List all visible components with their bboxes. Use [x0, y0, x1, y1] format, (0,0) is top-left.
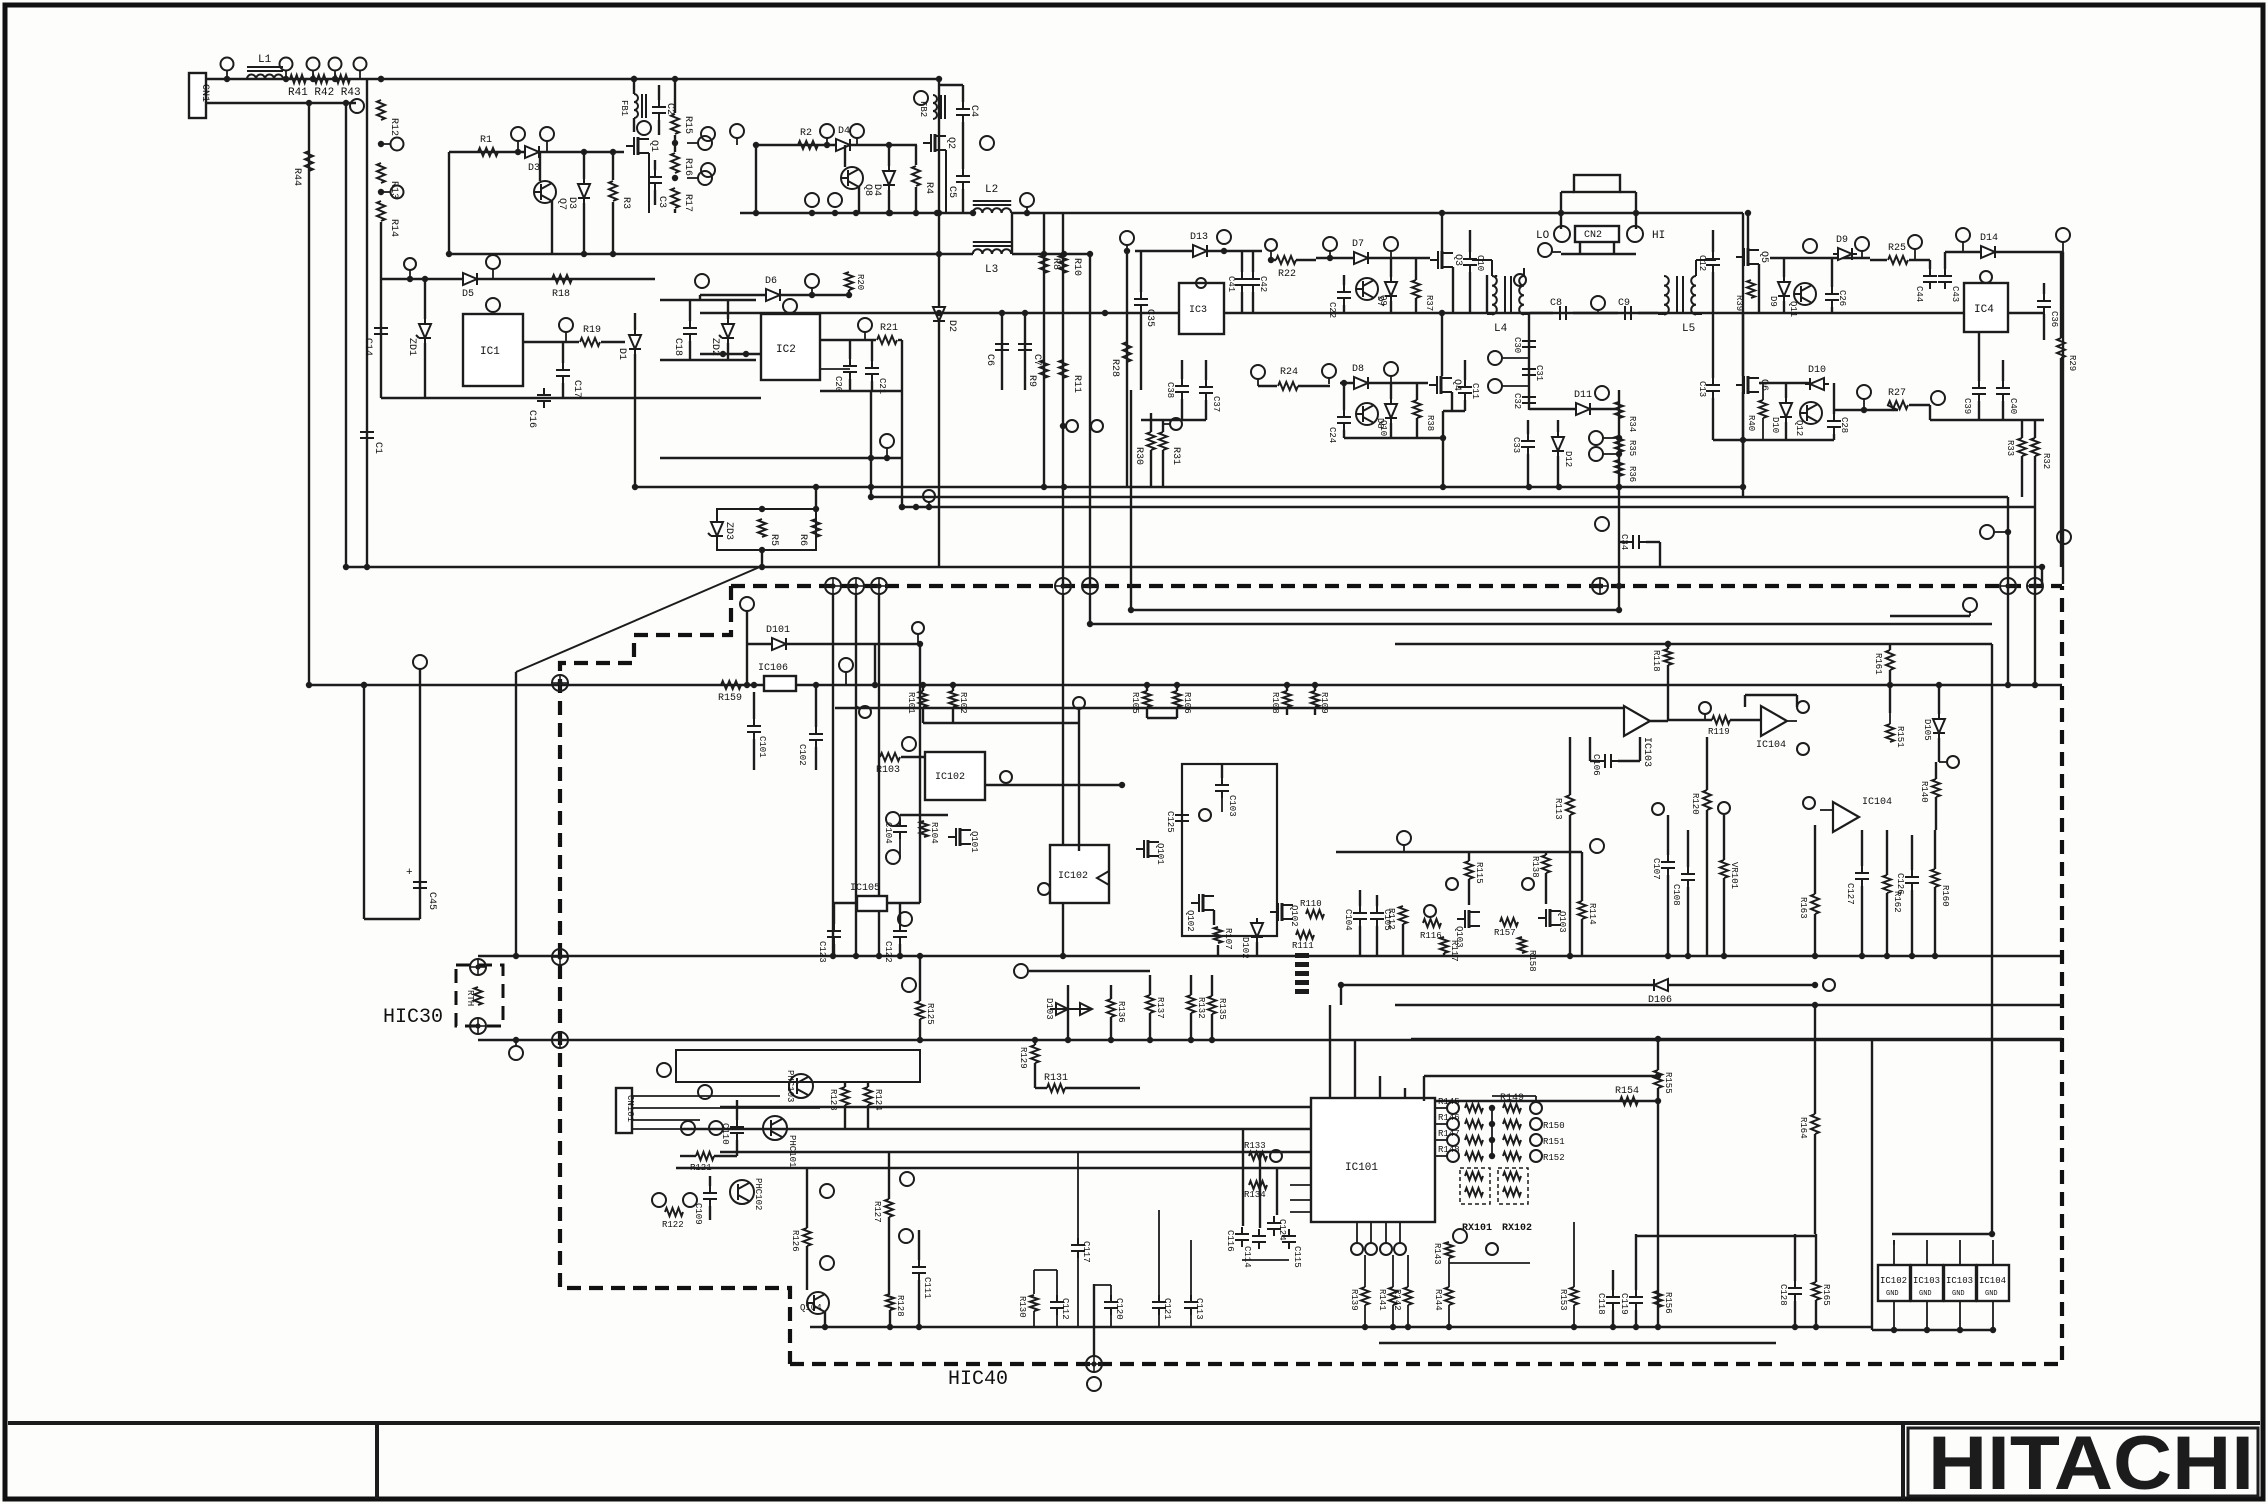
- wire C39 b: [1978, 401, 1980, 420]
- wire R140 b: [1935, 797, 1937, 830]
- wire R118 t: [1667, 644, 1669, 649]
- wire x1131 v: [1130, 390, 1132, 610]
- svg-text:R22: R22: [1278, 269, 1296, 280]
- wire bus y254 right: [1012, 253, 1090, 255]
- svg-text:R14: R14: [388, 219, 399, 237]
- wire R29 t: [2060, 252, 2062, 338]
- junction dot: [1665, 953, 1671, 959]
- diode D2: [933, 302, 945, 326]
- diode D9v: [1778, 277, 1790, 301]
- wire x420 v: [419, 668, 421, 919]
- terminal: [1447, 1118, 1459, 1130]
- junction dot: [1812, 1002, 1818, 1008]
- terminal: [1956, 228, 1970, 242]
- svg-text:R130: R130: [1017, 1296, 1027, 1318]
- wire D3v top: [583, 152, 585, 179]
- svg-text:C30: C30: [1512, 337, 1522, 353]
- wire C24 b: [1343, 430, 1345, 438]
- wire x1094 v: [1093, 1284, 1095, 1356]
- capacitor C28: [1827, 414, 1841, 434]
- wire R138 t: [1545, 852, 1547, 855]
- wire gnd top: [1926, 1240, 1928, 1265]
- wire R29 b: [2060, 358, 2062, 567]
- junction: [759, 564, 765, 570]
- wire R38 b: [1416, 418, 1418, 438]
- terminal: [1424, 905, 1436, 917]
- junction: [1489, 1121, 1495, 1127]
- wire C113 b: [1190, 1315, 1192, 1327]
- wire R102 t: [952, 685, 954, 691]
- wire y1076 row: [1424, 1075, 1658, 1077]
- pin header bar: [1295, 962, 1309, 967]
- wire R135 b: [1211, 1014, 1213, 1040]
- transistor Q104: [807, 1292, 829, 1314]
- wire clk row: [985, 784, 1122, 786]
- svg-text:RX102: RX102: [1502, 1223, 1532, 1234]
- terminal: [404, 258, 416, 270]
- terminal: [1251, 365, 1265, 379]
- wire R21 r: [898, 339, 902, 341]
- wire R24 l: [1258, 385, 1277, 387]
- resistor R133: [1249, 1152, 1267, 1160]
- GND box IC103: [1944, 1265, 1976, 1301]
- svg-text:Q3: Q3: [1452, 254, 1463, 266]
- junction: [1489, 1137, 1495, 1143]
- wire R155 t: [1657, 1039, 1659, 1070]
- wire D13 row: [1135, 250, 1262, 252]
- svg-text:R136: R136: [1116, 1001, 1126, 1023]
- wire shunt top l: [1561, 191, 1574, 193]
- svg-text:R139: R139: [1349, 1289, 1359, 1311]
- svg-text:R149: R149: [1500, 1093, 1524, 1104]
- wire C122 b: [899, 944, 901, 956]
- plus terminal: [871, 578, 887, 594]
- wire Q1 gate row y152: [449, 151, 624, 153]
- wire C113 t: [1190, 1240, 1192, 1295]
- resistor R146: [1465, 1120, 1483, 1128]
- terminal: [898, 912, 912, 926]
- wire C5 v: [962, 122, 964, 169]
- svg-text:R111: R111: [1292, 941, 1314, 951]
- wire x875 v: [874, 644, 876, 685]
- junction: [886, 142, 892, 148]
- wire res bottom: [1407, 1305, 1409, 1327]
- terminal: [730, 124, 744, 138]
- wire D7v b: [1390, 301, 1392, 313]
- junction dot: [1102, 310, 1108, 316]
- wire R163 b: [1814, 914, 1816, 956]
- wire x1341 v: [1340, 985, 1342, 1005]
- svg-text:R15: R15: [682, 116, 693, 134]
- wire y1039 row: [1411, 1038, 2062, 1040]
- resistor R157: [1500, 918, 1518, 926]
- wire R162 b: [1886, 893, 1888, 956]
- wire C110 t: [736, 1100, 738, 1120]
- junction dot: [513, 953, 519, 959]
- wire R129 b: [1034, 1063, 1036, 1088]
- svg-text:R28: R28: [1109, 359, 1120, 377]
- svg-text:R1: R1: [480, 135, 492, 146]
- svg-text:R154: R154: [1615, 1086, 1639, 1097]
- terminal LO: [1554, 226, 1570, 242]
- junction: [343, 100, 349, 106]
- svg-text:D4: D4: [838, 126, 850, 137]
- svg-text:C8: C8: [1550, 298, 1562, 309]
- wire D4v top: [888, 145, 890, 166]
- resistor R6: [812, 519, 820, 537]
- svg-text:R160: R160: [1940, 885, 1950, 907]
- svg-text:C42: C42: [1258, 276, 1268, 292]
- wire x1619 v: [1618, 390, 1620, 610]
- wire C44 v: [1929, 260, 1931, 269]
- transistor Q11: [1794, 283, 1816, 305]
- wire R126 t: [806, 1168, 808, 1228]
- wire x871 v: [870, 391, 872, 497]
- wire R114 b: [1581, 919, 1583, 956]
- wire R17 line: [674, 209, 676, 213]
- diode D8v: [1385, 399, 1397, 423]
- svg-text:C44: C44: [1914, 286, 1924, 302]
- capacitor C112: [1050, 1295, 1064, 1315]
- svg-text:C111: C111: [922, 1277, 932, 1299]
- svg-text:RTH: RTH: [465, 990, 475, 1006]
- capacitor C122: [893, 924, 907, 944]
- capacitor C107: [1661, 855, 1675, 875]
- wire R126 b: [806, 1246, 808, 1290]
- wire C22 t: [1343, 275, 1345, 285]
- wire x1243 v: [1242, 1129, 1244, 1226]
- svg-text:HIC30: HIC30: [383, 1006, 443, 1029]
- svg-text:R163: R163: [1798, 897, 1808, 919]
- wire R102 b: [952, 707, 954, 723]
- wire vertical x1743: [1742, 213, 1744, 487]
- plus terminal: [552, 949, 568, 965]
- svg-text:IC102: IC102: [1058, 871, 1088, 882]
- wire x1424 v: [1423, 1076, 1425, 1101]
- wire stub: [826, 138, 828, 145]
- plus terminal: [552, 675, 568, 691]
- wire C102 t: [815, 685, 817, 727]
- diode D103 pair: [1050, 1003, 1092, 1015]
- terminal: [1591, 296, 1605, 310]
- svg-text:D4: D4: [871, 184, 882, 196]
- wire R164 t: [1814, 1005, 1816, 1114]
- wire FB1 Q1: [633, 118, 635, 132]
- wire stub: [1994, 531, 2008, 533]
- junction dot: [899, 504, 905, 510]
- wire y1152 row: [720, 1151, 1311, 1153]
- wire C24 t: [1343, 383, 1345, 410]
- wire D12 b: [1557, 456, 1559, 487]
- wire x920 v: [919, 644, 921, 903]
- wire C126 t: [1911, 835, 1913, 870]
- junction: [886, 210, 892, 216]
- wire Q104 b: [824, 1312, 826, 1327]
- wire x756 down: [755, 145, 757, 213]
- wire top bus: [206, 78, 939, 80]
- GND box IC102: [1878, 1265, 1910, 1301]
- terminal: [1530, 1150, 1542, 1162]
- wire y279 down: [380, 279, 382, 398]
- wire R120 b: [1706, 810, 1708, 956]
- wire IC104 fb2: [1745, 694, 1797, 696]
- wire y420 row: [1930, 419, 2044, 421]
- wire R135 t: [1211, 975, 1213, 996]
- resistor R20: [845, 272, 853, 290]
- svg-text:C4: C4: [968, 105, 979, 117]
- wire D9v b: [1783, 301, 1785, 313]
- capacitor C3: [648, 170, 662, 190]
- junction dot: [868, 484, 874, 490]
- junction dot: [887, 210, 893, 216]
- wire stub: [1597, 310, 1599, 313]
- wire C33 b: [1527, 454, 1529, 487]
- svg-text:C10: C10: [1475, 255, 1485, 271]
- resistor R122: [665, 1208, 683, 1216]
- terminal HI: [1627, 226, 1643, 242]
- wire C10 b: [1469, 272, 1471, 313]
- capacitor C117: [1071, 1238, 1085, 1258]
- wire y383 row2: [1759, 382, 1810, 384]
- wire R40 t: [1762, 383, 1764, 400]
- wire Q7 base: [539, 152, 541, 181]
- wire R119 r: [1730, 719, 1761, 721]
- wire R130 t: [1033, 1270, 1035, 1294]
- terminal: [1217, 230, 1231, 244]
- capacitor C8: [1553, 306, 1573, 320]
- svg-text:R109: R109: [1319, 692, 1329, 714]
- svg-text:LO: LO: [1536, 230, 1550, 242]
- terminal: [1823, 979, 1835, 991]
- svg-text:Q4: Q4: [1451, 379, 1462, 391]
- resistor R16: [671, 153, 679, 173]
- capacitor C31: [1522, 362, 1536, 382]
- junction: [913, 210, 919, 216]
- svg-text:R108: R108: [1270, 692, 1280, 714]
- wire gnd top: [1893, 1240, 1895, 1265]
- wire Q2 gate row y145: [756, 144, 917, 146]
- wire bus y497: [871, 496, 2008, 498]
- resistor R125: [916, 1001, 924, 1019]
- plus terminal RTH top: [470, 959, 486, 975]
- wire R119 l: [1668, 719, 1712, 721]
- resistor R41: [290, 75, 306, 83]
- svg-text:C31: C31: [1534, 365, 1544, 381]
- terminal: [698, 1085, 712, 1099]
- svg-text:D101: D101: [766, 625, 790, 636]
- diode D3v: [578, 179, 590, 203]
- resistor ladder2: [1503, 1136, 1521, 1144]
- capacitor C13: [1706, 378, 1720, 398]
- svg-text:D5: D5: [462, 289, 474, 300]
- wire d102 v: [1256, 942, 1258, 956]
- junction dot: [306, 682, 312, 688]
- capacitor C39: [1972, 381, 1986, 401]
- resistor R1: [478, 148, 498, 156]
- plus terminal RTH bottom: [470, 1018, 486, 1034]
- junction: [913, 504, 919, 510]
- resistor R153: [1570, 1287, 1578, 1305]
- svg-text:C127: C127: [1845, 883, 1855, 905]
- wire x1090b v: [1089, 594, 1091, 624]
- wire R160 t: [1934, 830, 1936, 869]
- resistor R4: [912, 166, 920, 186]
- wire R101 t: [922, 685, 924, 691]
- svg-text:C123: C123: [817, 941, 827, 963]
- wire shunt top r: [1620, 191, 1636, 193]
- wire ladder bus: [1491, 1108, 1493, 1156]
- wire D14 row: [1945, 251, 2063, 253]
- wire C107 t: [1667, 815, 1669, 855]
- resistor R113: [1566, 795, 1574, 815]
- capacitor C121: [1152, 1295, 1166, 1315]
- diode D9: [1833, 248, 1857, 260]
- resistor RX net: [1465, 1188, 1483, 1196]
- wire R108 t: [1286, 685, 1288, 691]
- junction: [1616, 435, 1622, 441]
- terminal: [683, 1193, 697, 1207]
- resistor R24: [1278, 382, 1298, 390]
- resistor R19: [580, 338, 600, 346]
- wire y1263: [1449, 1262, 1530, 1264]
- hitachi cell divider: [1901, 1423, 1905, 1499]
- terminal: [1384, 237, 1398, 251]
- svg-text:R32: R32: [2041, 453, 2051, 469]
- junction dot: [917, 953, 923, 959]
- wire R40 b: [1762, 418, 1764, 440]
- wire C106 r: [1618, 760, 1640, 762]
- resistor ladder2: [1503, 1152, 1521, 1160]
- plus terminal: [1086, 1356, 1102, 1372]
- junction dot: [2039, 564, 2045, 570]
- wire R14 to D5 row: [380, 222, 382, 279]
- wire C127 b: [1861, 886, 1863, 956]
- terminal: [1365, 1243, 1377, 1255]
- capacitor C119: [1629, 1290, 1643, 1310]
- wire res bottom: [1392, 1305, 1394, 1327]
- wire C117 t: [1077, 1152, 1079, 1238]
- wire fb loop v: [1639, 737, 1641, 761]
- capacitor C43: [1938, 269, 1952, 289]
- wire IC2 pin mid: [820, 368, 850, 370]
- wire stub r22: [1270, 251, 1272, 260]
- resistor R2: [798, 141, 818, 149]
- svg-text:R101: R101: [906, 692, 916, 714]
- svg-text:Q102: Q102: [1185, 910, 1195, 932]
- svg-text:R110: R110: [1300, 899, 1322, 909]
- junction dot: [897, 953, 903, 959]
- wire C102 b: [815, 747, 817, 770]
- wire x1529 v: [1528, 313, 1530, 410]
- junction: [720, 351, 726, 357]
- resistor R126: [803, 1228, 811, 1246]
- resistor R151b: [1886, 724, 1894, 742]
- wire Q4 v: [1441, 313, 1443, 376]
- IC IC102b: [1050, 845, 1109, 903]
- capacitor C10: [1463, 252, 1477, 272]
- wire stub: [1962, 242, 1964, 252]
- inductor FB1: [634, 94, 646, 118]
- svg-text:R20: R20: [855, 274, 865, 290]
- wire R105 t: [1146, 685, 1148, 691]
- resistor R30: [1147, 432, 1155, 450]
- wire R20 b: [848, 290, 850, 295]
- wire D101 row: [747, 643, 920, 645]
- wire C110 b: [736, 1140, 738, 1156]
- wire R32 b: [2034, 456, 2036, 507]
- wire R37 t: [1415, 258, 1417, 280]
- wire stub d10: [1863, 399, 1865, 410]
- wire bus y610: [1131, 609, 1619, 611]
- capacitor C128: [1788, 1281, 1802, 1301]
- junction dot: [970, 210, 976, 216]
- PHC103 transistor: [789, 1074, 813, 1098]
- wire stub: [1063, 425, 1066, 427]
- plus terminal: [1592, 578, 1608, 594]
- capacitor C113: [1184, 1295, 1198, 1315]
- diode D4v: [883, 166, 895, 190]
- plus terminal: [1055, 578, 1071, 594]
- junction: [1633, 210, 1639, 216]
- wire R25 r: [1909, 259, 1930, 261]
- wire Q8 base: [844, 145, 846, 167]
- wire x700 v: [699, 295, 701, 300]
- wire stub: [1552, 251, 1561, 253]
- terminal: [1380, 1243, 1392, 1255]
- capacitor C104b: [1353, 906, 1367, 926]
- capacitor C126: [1905, 870, 1919, 890]
- RX102 dashed box: [1498, 1168, 1528, 1204]
- svg-text:C126: C126: [1895, 873, 1905, 895]
- svg-text:D3: D3: [528, 163, 540, 174]
- wire C106 l: [1590, 760, 1598, 762]
- wire C101 t: [753, 692, 755, 719]
- svg-text:GND: GND: [1985, 1290, 1998, 1298]
- resistor R142: [1404, 1287, 1412, 1305]
- hitachi logo box: [1908, 1428, 2258, 1496]
- svg-text:L1: L1: [258, 54, 272, 66]
- svg-text:C115: C115: [1292, 1246, 1302, 1268]
- wire CN101 w4: [632, 1128, 680, 1130]
- svg-text:IC103: IC103: [1641, 737, 1652, 767]
- wire R27 r: [1909, 404, 1930, 406]
- wire C126 b: [1911, 890, 1913, 956]
- wire R131 r: [1065, 1087, 1140, 1089]
- terminal: [657, 1063, 671, 1077]
- wire R139 t: [1364, 1255, 1366, 1287]
- wire C42 b: [1252, 292, 1254, 313]
- transistor Q4: [1429, 376, 1452, 394]
- plus terminal: [2027, 578, 2043, 594]
- svg-text:C108: C108: [1671, 884, 1681, 906]
- IC IC4: [1964, 283, 2008, 332]
- wire stub: [1126, 245, 1128, 251]
- svg-text:R27: R27: [1888, 388, 1906, 399]
- junction: [610, 251, 616, 257]
- junction dot: [1616, 607, 1622, 613]
- terminal: [1803, 797, 1815, 809]
- pin header bar: [1295, 989, 1309, 994]
- junction: [672, 76, 678, 82]
- junction dot: [1312, 682, 1318, 688]
- wire C109 t: [709, 1176, 711, 1186]
- svg-text:C117: C117: [1081, 1241, 1091, 1263]
- wire R162 t: [1886, 830, 1888, 875]
- wire y975 row: [1029, 970, 1150, 972]
- junction: [813, 506, 819, 512]
- svg-text:R142: R142: [1392, 1289, 1402, 1311]
- svg-text:R107: R107: [1223, 928, 1233, 950]
